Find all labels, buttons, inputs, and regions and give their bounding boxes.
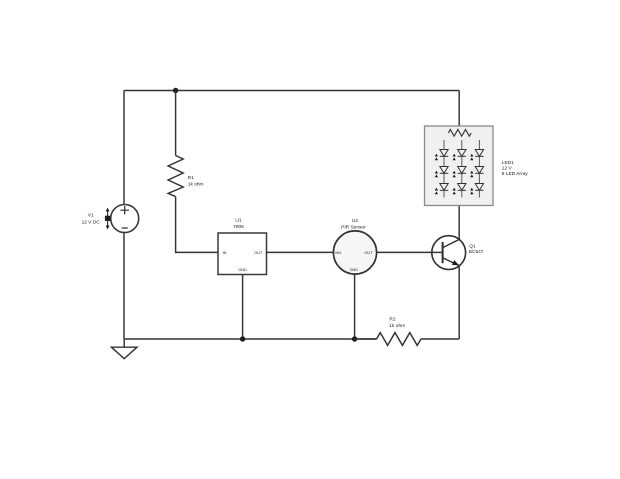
svg-text:GND: GND	[238, 268, 247, 272]
LED D r2c1	[435, 167, 448, 178]
ground symbol	[111, 339, 137, 359]
LED array LED1 block	[425, 126, 494, 206]
svg-text:Q1: Q1	[469, 244, 476, 250]
svg-text:12 V DC: 12 V DC	[82, 219, 101, 225]
svg-text:IN: IN	[223, 251, 227, 255]
junction node U1 GND / bottom rail	[240, 336, 245, 341]
LED D r1c3	[470, 150, 483, 161]
svg-text:1k ohm: 1k ohm	[389, 323, 405, 329]
transistor Q1 BC547	[432, 236, 466, 270]
LED D r1c1	[435, 150, 448, 161]
svg-text:PIR Sensor: PIR Sensor	[341, 224, 366, 230]
svg-text:U2: U2	[352, 218, 358, 224]
svg-text:LED1: LED1	[502, 160, 514, 166]
LED1 column 1 string wire	[443, 140, 445, 198]
wire V1 bottom lead	[123, 233, 125, 339]
LED1 column 3 string wire	[478, 140, 480, 198]
voltage regulator U1 7805	[218, 233, 267, 275]
LED D r3c3	[470, 184, 483, 195]
LED D r2c3	[470, 167, 483, 178]
svg-text:7805: 7805	[233, 224, 244, 230]
LED D r3c1	[435, 184, 448, 195]
sensor U2 PIR	[333, 231, 376, 274]
wire U2 OUT to Q1 base	[377, 251, 432, 253]
wire LED1 top lead	[458, 91, 460, 127]
wire V1 top lead	[123, 91, 125, 205]
wire U2 GND lead	[354, 274, 356, 339]
wire bottom rail (ground net)	[124, 338, 377, 340]
svg-text:VIN: VIN	[335, 251, 342, 255]
LED D r3c2	[453, 184, 466, 195]
svg-text:OUT: OUT	[254, 251, 263, 255]
LED D r2c2	[453, 167, 466, 178]
LED1 internal resistor	[448, 130, 471, 137]
LED1 column 2 string wire	[461, 140, 463, 198]
svg-text:U1: U1	[235, 218, 241, 224]
junction node at top rail / R1	[173, 88, 178, 93]
wire Q1 emitter lead	[458, 266, 460, 339]
wire U1 OUT to U2 VIN	[267, 251, 334, 253]
LED D r1c2	[453, 150, 466, 161]
wire R1 top lead	[175, 91, 177, 156]
svg-text:V1: V1	[88, 212, 94, 218]
wire bottom rail to R2	[355, 338, 377, 340]
wire top rail (V1+ to LED1)	[124, 90, 459, 92]
junction node U2 GND / bottom rail	[352, 336, 357, 341]
svg-text:OUT: OUT	[364, 251, 373, 255]
voltage source V1	[111, 205, 139, 233]
wire U1 GND lead	[242, 275, 244, 340]
V1 polarity arrow marker	[105, 208, 111, 230]
svg-text:R1: R1	[188, 175, 194, 181]
resistor R1	[168, 156, 183, 197]
wire R1 bottom lead to U1 IN	[176, 197, 218, 253]
svg-text:BC547: BC547	[469, 249, 484, 255]
svg-text:12 V: 12 V	[502, 165, 513, 171]
resistor R2	[377, 333, 421, 346]
wire R2 to Q1 emitter	[421, 338, 459, 340]
svg-text:R2: R2	[389, 316, 395, 322]
wire Q1 collector lead	[458, 206, 460, 240]
svg-text:9 LED Array: 9 LED Array	[502, 171, 528, 177]
svg-text:1k ohm: 1k ohm	[188, 182, 204, 188]
svg-text:GND: GND	[350, 268, 359, 272]
